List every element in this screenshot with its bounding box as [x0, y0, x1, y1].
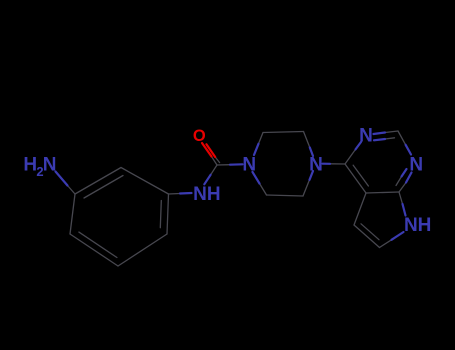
svg-text:N: N [409, 155, 423, 176]
svg-text:O: O [193, 127, 206, 145]
svg-text:N: N [242, 155, 256, 176]
svg-text:N: N [193, 184, 207, 205]
svg-text:N: N [404, 215, 418, 236]
svg-text:N: N [43, 155, 57, 176]
svg-text:H: H [23, 155, 37, 176]
svg-text:H: H [418, 215, 432, 236]
svg-text:N: N [359, 126, 373, 147]
svg-text:H: H [207, 184, 221, 205]
svg-text:N: N [309, 155, 323, 176]
